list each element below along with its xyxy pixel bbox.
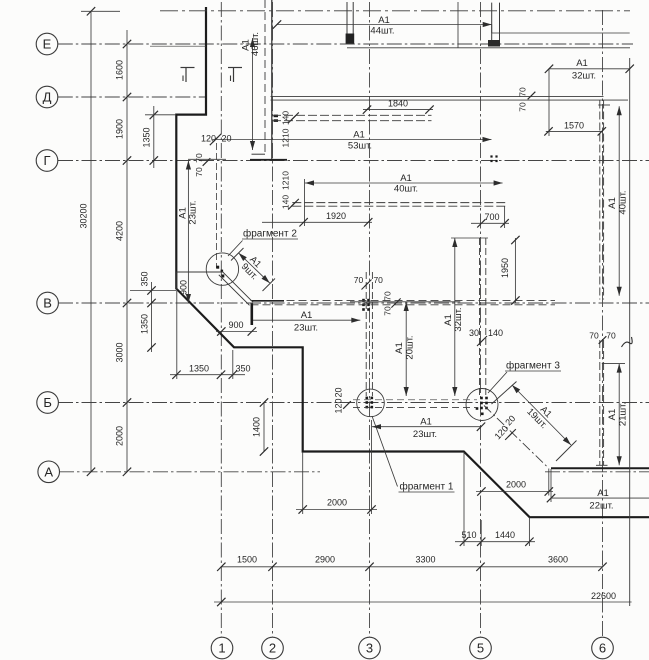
svg-text:3600: 3600 bbox=[548, 555, 568, 565]
svg-text:А1: А1 bbox=[400, 173, 412, 184]
svg-text:70: 70 bbox=[194, 167, 204, 177]
svg-text:Е: Е bbox=[43, 37, 52, 52]
svg-text:32шт.: 32шт. bbox=[453, 307, 464, 331]
svg-text:3000: 3000 bbox=[115, 342, 125, 362]
svg-text:140: 140 bbox=[281, 195, 291, 209]
svg-text:53шт.: 53шт. bbox=[348, 141, 372, 152]
svg-text:Д: Д bbox=[43, 90, 52, 105]
svg-text:1840: 1840 bbox=[388, 99, 408, 109]
svg-text:5: 5 bbox=[477, 641, 484, 656]
svg-text:А: А bbox=[44, 464, 53, 479]
svg-text:Г: Г bbox=[43, 153, 50, 168]
svg-text:30: 30 bbox=[469, 328, 479, 338]
svg-text:1210: 1210 bbox=[281, 171, 291, 190]
svg-text:70: 70 bbox=[194, 153, 204, 163]
svg-text:140: 140 bbox=[488, 328, 503, 338]
svg-text:23шт.: 23шт. bbox=[294, 323, 318, 334]
svg-text:40шт.: 40шт. bbox=[394, 184, 418, 195]
svg-text:30200: 30200 bbox=[79, 203, 89, 228]
svg-text:46шт.: 46шт. bbox=[250, 32, 261, 56]
svg-text:21шт.: 21шт. bbox=[617, 402, 628, 426]
svg-text:2000: 2000 bbox=[115, 426, 125, 446]
svg-text:А1: А1 bbox=[597, 488, 609, 499]
svg-text:120: 120 bbox=[201, 134, 216, 144]
svg-text:70: 70 bbox=[383, 306, 393, 316]
svg-text:120: 120 bbox=[334, 398, 344, 413]
svg-text:1500: 1500 bbox=[237, 555, 257, 565]
svg-text:фрагмент 1: фрагмент 1 bbox=[400, 481, 454, 493]
svg-text:А1: А1 bbox=[420, 417, 432, 428]
svg-text:1570: 1570 bbox=[564, 121, 584, 131]
svg-text:44шт.: 44шт. bbox=[370, 26, 394, 37]
svg-text:40шт.: 40шт. bbox=[617, 190, 628, 214]
svg-text:700: 700 bbox=[484, 212, 499, 222]
svg-text:1920: 1920 bbox=[326, 211, 346, 221]
svg-text:900: 900 bbox=[228, 320, 243, 330]
svg-text:20: 20 bbox=[222, 134, 232, 144]
svg-text:1900: 1900 bbox=[115, 119, 125, 139]
svg-text:32шт.: 32шт. bbox=[572, 71, 596, 82]
svg-text:2000: 2000 bbox=[506, 480, 526, 490]
svg-text:70: 70 bbox=[589, 331, 599, 341]
svg-text:1210: 1210 bbox=[281, 128, 291, 147]
svg-text:2000: 2000 bbox=[327, 498, 347, 508]
svg-text:А1: А1 bbox=[576, 58, 588, 69]
svg-text:1600: 1600 bbox=[115, 60, 125, 80]
svg-text:1350: 1350 bbox=[189, 364, 209, 374]
svg-text:140: 140 bbox=[281, 111, 291, 125]
svg-text:А1: А1 bbox=[301, 310, 313, 321]
svg-text:фрагмент 3: фрагмент 3 bbox=[506, 360, 560, 372]
svg-text:2900: 2900 bbox=[315, 555, 335, 565]
svg-text:350: 350 bbox=[140, 271, 150, 286]
svg-text:70: 70 bbox=[518, 102, 528, 112]
svg-text:1350: 1350 bbox=[140, 314, 150, 334]
svg-text:фрагмент 2: фрагмент 2 bbox=[243, 228, 297, 240]
svg-text:22600: 22600 bbox=[591, 591, 616, 601]
svg-text:3300: 3300 bbox=[415, 555, 435, 565]
svg-text:70: 70 bbox=[383, 291, 393, 301]
svg-text:70: 70 bbox=[606, 331, 616, 341]
svg-text:А1: А1 bbox=[443, 314, 454, 326]
svg-text:70: 70 bbox=[518, 87, 528, 97]
svg-text:4200: 4200 bbox=[115, 221, 125, 241]
svg-text:1: 1 bbox=[218, 641, 225, 656]
svg-text:23шт.: 23шт. bbox=[413, 429, 437, 440]
svg-text:1400: 1400 bbox=[252, 417, 262, 437]
svg-text:2: 2 bbox=[269, 641, 276, 656]
svg-text:20: 20 bbox=[334, 387, 344, 397]
svg-text:6: 6 bbox=[599, 641, 606, 656]
svg-text:22шт.: 22шт. bbox=[589, 501, 613, 512]
svg-text:А1: А1 bbox=[394, 342, 405, 354]
svg-text:В: В bbox=[43, 296, 52, 311]
svg-text:70: 70 bbox=[373, 275, 383, 285]
svg-text:3: 3 bbox=[366, 641, 373, 656]
svg-text:900: 900 bbox=[178, 280, 188, 295]
svg-text:350: 350 bbox=[235, 364, 250, 374]
svg-text:Б: Б bbox=[43, 395, 52, 410]
svg-text:23шт.: 23шт. bbox=[188, 200, 199, 224]
svg-text:20шт.: 20шт. bbox=[404, 335, 415, 359]
svg-text:А1: А1 bbox=[353, 130, 365, 141]
svg-text:70: 70 bbox=[354, 275, 364, 285]
svg-text:1440: 1440 bbox=[495, 530, 515, 540]
svg-text:1350: 1350 bbox=[142, 127, 152, 147]
svg-text:1950: 1950 bbox=[500, 258, 510, 278]
